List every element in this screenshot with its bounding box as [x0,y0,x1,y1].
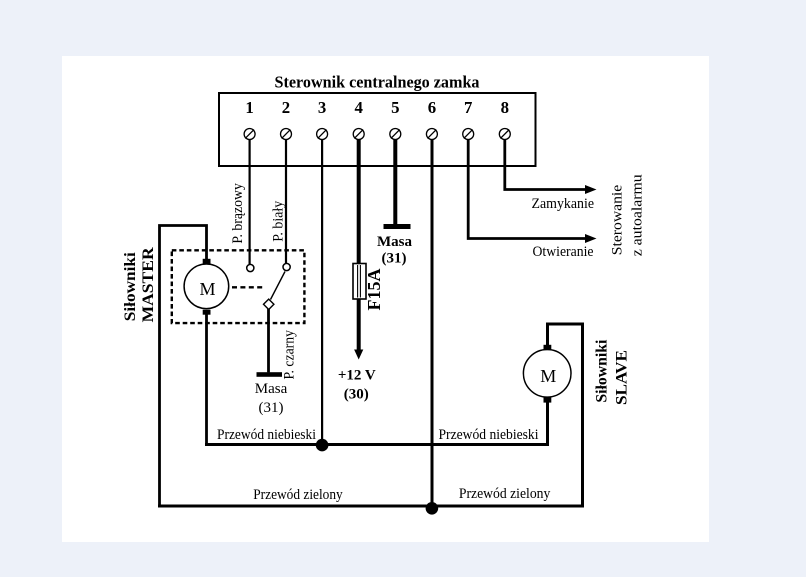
svg-text:(31): (31) [382,251,407,267]
svg-text:Przewód zielony: Przewód zielony [459,486,551,502]
svg-text:3: 3 [318,98,326,117]
svg-text:Przewód zielony: Przewód zielony [253,487,343,503]
svg-text:(31): (31) [259,400,284,416]
svg-text:Przewód niebieski: Przewód niebieski [439,427,539,443]
svg-text:Sterowanie: Sterowanie [610,184,626,255]
svg-text:Masa: Masa [377,234,412,250]
svg-text:Masa: Masa [255,381,288,397]
svg-text:P. czarny: P. czarny [282,330,298,380]
svg-text:Zamykanie: Zamykanie [532,196,595,212]
svg-text:M: M [199,279,215,299]
svg-text:M: M [540,366,556,386]
svg-text:Przewód niebieski: Przewód niebieski [217,427,316,443]
svg-text:SLAVE: SLAVE [614,350,631,405]
svg-text:P. biały: P. biały [271,200,287,241]
svg-text:(30): (30) [344,387,369,403]
svg-text:Siłowniki: Siłowniki [122,252,139,322]
svg-text:6: 6 [428,98,436,117]
svg-text:Otwieranie: Otwieranie [533,244,594,260]
svg-text:Siłowniki: Siłowniki [594,339,611,403]
svg-text:7: 7 [464,98,472,117]
svg-text:2: 2 [282,98,290,117]
svg-text:F15A: F15A [364,268,384,310]
svg-text:4: 4 [355,98,364,117]
svg-text:P. brązowy: P. brązowy [230,183,246,244]
svg-text:+12 V: +12 V [338,368,376,384]
svg-text:8: 8 [501,98,509,117]
svg-text:Sterownik centralnego zamka: Sterownik centralnego zamka [275,73,480,92]
svg-text:z autoalarmu: z autoalarmu [630,174,646,257]
svg-text:1: 1 [245,98,253,117]
svg-text:MASTER: MASTER [140,247,157,322]
svg-text:5: 5 [391,98,399,117]
